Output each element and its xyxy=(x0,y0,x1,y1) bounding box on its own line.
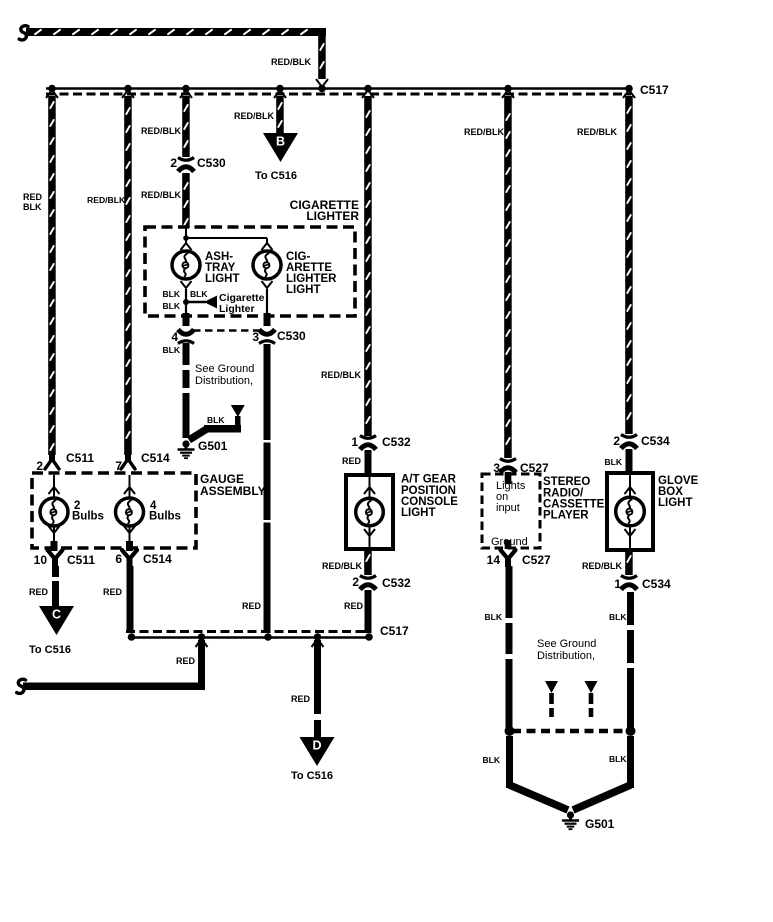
svg-text:input: input xyxy=(496,502,520,514)
lamp outlet chevron (gauge lamp 1) xyxy=(49,526,60,533)
lamp lead-in chevron (gauge lamp 1) xyxy=(49,487,60,494)
lamp lead-in chevron (gauge lamp 2) xyxy=(124,487,135,494)
connector C532 pin 1 xyxy=(360,436,376,450)
svg-text:G501: G501 xyxy=(198,439,228,453)
wire: BLK splice down (left) xyxy=(506,736,513,788)
svg-text:RED/BLK: RED/BLK xyxy=(87,195,126,205)
connector C511 pin 10 xyxy=(48,550,63,567)
junction dots on bottom bus xyxy=(128,633,373,641)
dashed ground link line xyxy=(512,729,628,734)
wire: RED/BLK bus to C511 pin 2 xyxy=(48,96,56,455)
svg-text:C517: C517 xyxy=(640,83,669,97)
wire: BLK splice down (right) xyxy=(627,736,634,788)
wire: RED bottom bus to harness (left exit) xyxy=(23,640,205,690)
svg-text:BLK: BLK xyxy=(163,301,181,311)
svg-text:6: 6 xyxy=(115,552,122,566)
svg-text:RED: RED xyxy=(242,601,262,611)
component box: glove box light xyxy=(607,473,653,550)
wire: RED/BLK bus to C534 pin 2 xyxy=(625,96,633,434)
svg-text:RED/BLK: RED/BLK xyxy=(322,561,362,571)
bus: connector C517 (bottom) solid line xyxy=(128,636,371,639)
lamp lead-in chevron (cigarette lighter light) xyxy=(262,243,273,250)
wire: RED bottom bus to arrow D xyxy=(314,640,321,738)
wire: RED/BLK glove box light to C534 pin 1 xyxy=(625,550,633,575)
svg-text:Bulbs: Bulbs xyxy=(72,511,104,523)
bus: connector C517 (top) solid line xyxy=(46,87,631,90)
label GLOVE BOX LIGHT xyxy=(658,475,699,509)
wire: RED/BLK bus to C527 pin 3 xyxy=(504,96,512,458)
splice dot (right ground) xyxy=(626,726,636,736)
label Lights on input xyxy=(496,480,526,514)
svg-text:RED: RED xyxy=(344,601,364,611)
svg-text:D: D xyxy=(312,739,321,753)
off-page arrow C xyxy=(39,606,74,635)
svg-text:RED/BLK: RED/BLK xyxy=(577,127,617,137)
svg-text:BLK: BLK xyxy=(483,755,501,765)
wire: RED/BLK C530 pin 2 to cigarette lighter box xyxy=(182,173,190,228)
tap wire to cigarette lighter element xyxy=(186,301,206,303)
svg-text:2: 2 xyxy=(613,434,620,448)
wire: RED/BLK bus to C530 pin 2 xyxy=(182,96,190,157)
off-page arrow B xyxy=(263,133,298,162)
svg-text:C514: C514 xyxy=(143,552,172,566)
svg-text:LIGHTER: LIGHTER xyxy=(306,209,359,223)
svg-text:BLK: BLK xyxy=(609,612,627,622)
svg-text:14: 14 xyxy=(487,553,501,567)
connector C514 pin 6 xyxy=(122,550,137,567)
component box: stereo radio/cassette player (dashed) xyxy=(482,474,540,548)
svg-text:RED/BLK: RED/BLK xyxy=(582,561,622,571)
svg-text:7: 7 xyxy=(115,459,122,473)
svg-text:To C516: To C516 xyxy=(255,170,297,182)
svg-text:RED: RED xyxy=(23,192,43,202)
wire stub through box edge (ash tray) xyxy=(183,313,190,326)
wire: RED/BLK bus to C532 pin 1 xyxy=(364,96,372,436)
svg-text:BLK: BLK xyxy=(605,457,623,467)
wire: BLK C527 pin 14 down to ground splice xyxy=(506,566,513,728)
bulb: gauge illumination (4 bulbs) xyxy=(116,498,144,526)
svg-text:1: 1 xyxy=(614,577,621,591)
internal lead wire (gauge lamp 1) xyxy=(53,475,55,499)
svg-text:To C516: To C516 xyxy=(291,770,333,782)
svg-text:3: 3 xyxy=(252,330,259,344)
svg-text:STEREO: STEREO xyxy=(543,476,590,488)
wire: RED/BLK bus drop to arrow B xyxy=(276,96,284,133)
svg-text:BLK: BLK xyxy=(207,415,225,425)
label 2 Bulbs xyxy=(72,500,104,523)
svg-text:See Ground: See Ground xyxy=(195,363,254,375)
internal outlet wire (gauge lamp 1) xyxy=(53,527,55,543)
svg-text:LIGHT: LIGHT xyxy=(401,507,436,519)
connector C511 pin 2 (top of gauge assembly) xyxy=(45,454,59,469)
label RED BLK (two lines) xyxy=(23,192,43,212)
wire flares below top bus xyxy=(46,90,635,98)
svg-text:RED/BLK: RED/BLK xyxy=(141,126,181,136)
svg-text:C534: C534 xyxy=(641,434,670,448)
label 4 Bulbs xyxy=(149,500,181,523)
lamp lead-in chevron (console light) xyxy=(364,487,375,494)
wire: feed drop to bus at C517 xyxy=(318,36,326,79)
bulb: gauge illumination (2 bulbs) xyxy=(40,498,68,526)
wire: RED C530 pin 3 to bottom bus xyxy=(264,344,271,633)
bus: connector C517 (bottom) dashed line xyxy=(126,630,371,633)
svg-text:C511: C511 xyxy=(66,451,94,465)
wire: RED C532 pin 2 to bottom bus xyxy=(365,590,372,633)
wire: RED/BLK console light to C532 pin 2 xyxy=(364,549,372,575)
svg-text:BLK: BLK xyxy=(163,345,181,355)
svg-text:RED/BLK: RED/BLK xyxy=(141,190,181,200)
wire: RED C532 pin 1 to console light box xyxy=(365,450,372,476)
off-page arrow D xyxy=(300,737,335,766)
lamp lead-in chevron (glove box light) xyxy=(625,487,636,494)
wire flares below bottom bus xyxy=(196,639,324,647)
svg-text:RED: RED xyxy=(29,587,49,597)
svg-text:2: 2 xyxy=(352,575,359,589)
connector C530 dashed link xyxy=(193,329,259,332)
terminal arrow: other ground wire 1 xyxy=(545,681,558,693)
label STEREO RADIO/ CASSETTE PLAYER xyxy=(543,476,605,522)
svg-text:A/T GEAR: A/T GEAR xyxy=(401,474,457,486)
svg-text:LIGHT: LIGHT xyxy=(286,284,321,296)
svg-text:2: 2 xyxy=(170,156,177,170)
note: See Ground Distribution xyxy=(195,363,254,387)
svg-text:Lighter: Lighter xyxy=(219,303,255,315)
internal lead wire (console light) xyxy=(369,477,371,499)
terminal arrow into branch (from interior light circuit) xyxy=(231,405,245,417)
branch wire joining G501 (from other circuit) xyxy=(189,416,241,440)
svg-text:Distribution,: Distribution, xyxy=(537,650,595,662)
svg-text:BLK: BLK xyxy=(485,612,503,622)
label CIGARETTE LIGHTER (title) xyxy=(290,198,360,223)
svg-text:B: B xyxy=(276,135,285,149)
label ASH- TRAY LIGHT xyxy=(205,251,240,285)
svg-text:RED/BLK: RED/BLK xyxy=(464,127,504,137)
junction flare: feed wire into bus xyxy=(316,79,328,87)
svg-text:BLK: BLK xyxy=(609,754,627,764)
internal wiring: splice to both lamps xyxy=(186,228,267,243)
connector C530 pin 4 xyxy=(178,330,194,344)
bus: connector C517 (top) dashed line xyxy=(46,93,631,96)
connector C534 pin 1 xyxy=(621,576,637,590)
svg-text:10: 10 xyxy=(34,553,48,567)
component box: A/T gear position console light xyxy=(346,475,393,549)
connector C514 pin 7 (top of gauge assembly) xyxy=(121,454,135,469)
ground G501 (left) xyxy=(178,440,195,458)
wire stub through box edge (gauge lamp 1) xyxy=(51,541,58,551)
bulb: glove box light xyxy=(616,497,645,526)
connector C534 pin 2 xyxy=(621,435,637,449)
splice hook: left exit wire xyxy=(17,679,26,693)
bulb: ash tray light xyxy=(172,251,200,279)
svg-text:C532: C532 xyxy=(382,435,411,449)
internal lead wire (gauge lamp 2) xyxy=(129,475,131,499)
wire: battery feed RED/BLK (top horizontal) xyxy=(26,28,326,36)
svg-text:C527: C527 xyxy=(522,553,551,567)
label CIG- ARETTE LIGHTER LIGHT xyxy=(286,251,337,296)
wire: BLK C534 pin 2 to glove box light xyxy=(626,449,633,474)
svg-text:RED: RED xyxy=(291,694,311,704)
splice dot (cigarette lighter feed) xyxy=(183,235,189,241)
svg-text:RED/BLK: RED/BLK xyxy=(271,57,311,67)
svg-text:Distribution,: Distribution, xyxy=(195,375,253,387)
wire stub out of stereo box xyxy=(505,540,512,549)
svg-text:BLK: BLK xyxy=(190,289,208,299)
bulb: cigarette lighter light xyxy=(253,251,281,279)
label GAUGE ASSEMBLY xyxy=(200,472,266,498)
wire: diagonal to G501 (right) xyxy=(573,785,631,810)
connector C527 pin 3 xyxy=(500,459,516,473)
svg-text:C532: C532 xyxy=(382,576,411,590)
svg-text:C517: C517 xyxy=(380,624,409,638)
svg-text:C530: C530 xyxy=(197,156,226,170)
internal outlet wire (console light) xyxy=(369,526,371,548)
wire: RED C511 pin 10 to arrow C xyxy=(52,566,59,607)
label A/T GEAR POSITION CONSOLE LIGHT xyxy=(401,474,458,520)
wire: RED C514 pin 6 to bottom bus xyxy=(127,566,134,633)
svg-text:2: 2 xyxy=(36,459,43,473)
splice hook: feed wire continues (top left) xyxy=(19,26,28,40)
internal outlet wire (gauge lamp 2) xyxy=(129,527,131,543)
svg-text:BLK: BLK xyxy=(163,289,181,299)
wire: ash tray light to splice (thin, BLK) xyxy=(185,289,187,314)
svg-text:See Ground: See Ground xyxy=(537,638,596,650)
svg-text:C534: C534 xyxy=(642,577,671,591)
svg-text:ASSEMBLY: ASSEMBLY xyxy=(200,484,266,498)
svg-text:To C516: To C516 xyxy=(29,644,71,656)
lamp outlet chevron (console light) xyxy=(364,529,375,536)
svg-text:C511: C511 xyxy=(67,553,95,567)
wire stub into stereo box xyxy=(505,472,512,484)
junction dots on top bus xyxy=(48,85,633,93)
internal outlet wire (glove box light) xyxy=(629,526,631,549)
svg-text:4: 4 xyxy=(171,330,178,344)
wire stub through box edge (gauge lamp 2) xyxy=(126,541,133,551)
svg-text:RED: RED xyxy=(103,587,123,597)
svg-text:C: C xyxy=(52,608,61,622)
label Cigarette Lighter (element) xyxy=(219,292,265,315)
component box: gauge assembly (dashed) xyxy=(32,473,196,548)
dashed stem (ground wire 2) xyxy=(589,693,594,717)
wire: BLK C534 pin 1 down to ground splice xyxy=(627,592,634,728)
svg-text:BLK: BLK xyxy=(23,202,42,212)
terminal arrow: cigarette lighter element xyxy=(204,296,217,309)
svg-text:RED: RED xyxy=(176,656,196,666)
svg-text:LIGHT: LIGHT xyxy=(658,497,693,509)
note: See Ground Distribution (bottom) xyxy=(537,638,596,662)
svg-text:PLAYER: PLAYER xyxy=(543,510,589,522)
ground G501 (bottom right) xyxy=(562,811,579,829)
svg-text:C514: C514 xyxy=(141,451,170,465)
lamp outlet chevron (cigarette lighter light) xyxy=(262,281,273,288)
connector C530 pin 3 xyxy=(259,330,275,344)
svg-text:C530: C530 xyxy=(277,329,306,343)
svg-text:Bulbs: Bulbs xyxy=(149,511,181,523)
svg-text:1: 1 xyxy=(351,435,358,449)
svg-text:RED/BLK: RED/BLK xyxy=(234,111,274,121)
internal lead wire (glove box light) xyxy=(629,475,631,499)
component box: CIGARETTE LIGHTER (dashed) xyxy=(145,227,355,316)
wire stub through box edge (cig lighter light) xyxy=(264,313,271,326)
svg-text:RED/BLK: RED/BLK xyxy=(321,370,361,380)
svg-text:RED: RED xyxy=(342,456,362,466)
svg-text:LIGHT: LIGHT xyxy=(205,273,240,285)
wire: RED/BLK bus to C514 pin 7 xyxy=(124,96,132,455)
lamp outlet chevron (glove box light) xyxy=(625,529,636,536)
lamp lead-in chevron (ash tray light) xyxy=(181,243,192,250)
terminal arrow: other ground wire 2 xyxy=(585,681,598,693)
wire: cigarette lighter light down (thin, BLK) xyxy=(266,289,268,314)
bulb: A/T gear position console light xyxy=(356,498,384,526)
connector C530 pin 2 (in-line) xyxy=(178,158,194,172)
lamp outlet chevron (gauge lamp 2) xyxy=(124,526,135,533)
splice dot (ground splice in box) xyxy=(183,299,189,305)
lamp outlet chevron (ash tray light) xyxy=(181,281,192,288)
wire: BLK C530 pin 4 to ground G501 xyxy=(183,343,190,438)
wire: diagonal to G501 (left) xyxy=(510,785,569,810)
connector C527 pin 14 xyxy=(501,550,516,567)
dashed stem (ground wire 1) xyxy=(549,693,554,717)
svg-text:G501: G501 xyxy=(585,817,615,831)
splice dot (left ground) xyxy=(505,726,515,736)
connector C532 pin 2 xyxy=(360,576,376,590)
